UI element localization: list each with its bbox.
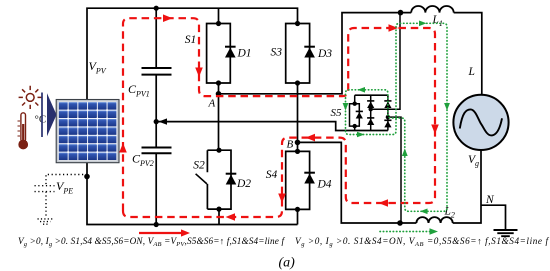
red arrow left on bottom segment (226, 213, 236, 221)
node S4 top (295, 149, 300, 154)
switch S5 rectangle (350, 95, 360, 130)
green arrow left above S5 block (358, 87, 366, 93)
green arrow down left of S5 (343, 103, 349, 111)
PV panel cells (58, 102, 116, 161)
svg-text:S4: S4 (266, 169, 278, 181)
node L1 junction (398, 10, 404, 16)
arrowhead on clamp wire at capacitor midpoint (159, 118, 168, 124)
svg-text:D4: D4 (317, 178, 332, 190)
wire m1 to top AC line (371, 13, 400, 110)
wire bottom AC line to grid (453, 150, 481, 223)
diode D5 on S5 right side (356, 112, 363, 119)
red arrow right on top inner segment (163, 14, 173, 22)
diode bridge bottom-right (384, 121, 391, 128)
wire capacitor string upper (155, 8, 157, 68)
inductor L2 (416, 217, 452, 223)
node m2 (386, 115, 390, 119)
svg-text:S3: S3 (271, 47, 283, 59)
diode bridge top-right (384, 102, 391, 109)
node S1 bottom (216, 80, 221, 85)
sine wave inside Vg (460, 109, 502, 135)
wire output A to top AC line (219, 13, 412, 94)
node S5 bottom (353, 124, 357, 128)
svg-text:B: B (287, 139, 294, 151)
svg-text:(a): (a) (279, 256, 296, 271)
svg-text:Vg: Vg (468, 154, 479, 168)
svg-text:D2: D2 (236, 178, 251, 190)
switch S3 block rectangle (286, 24, 310, 84)
wire top AC line to grid (454, 13, 482, 95)
node L2 junction (397, 220, 403, 226)
svg-text:D3: D3 (317, 48, 332, 60)
diode D2 (226, 175, 237, 185)
green arrow right below S5 block (357, 132, 365, 138)
wire m2 to bottom AC line (388, 117, 401, 223)
S5 block top rail (355, 94, 388, 96)
svg-text:°C: °C (35, 114, 47, 126)
wire clamp from capacitor midpoint to S5 block bottom rail (156, 122, 388, 131)
VPE dotted ground (38, 219, 53, 224)
sun icon (19, 86, 42, 109)
node A (216, 91, 222, 97)
svg-text:VPV: VPV (89, 59, 107, 76)
node capacitor midpoint (154, 119, 159, 124)
switch S2 blade (196, 174, 207, 184)
red arrow down on S4 leg (278, 194, 286, 204)
diode bridge bottom-left (367, 119, 374, 126)
node S3 top (295, 21, 300, 26)
svg-text:N: N (485, 194, 495, 206)
red arrow up on left leg (119, 143, 127, 153)
node S2 bottom (216, 207, 221, 212)
wire leg A column (218, 83, 220, 150)
irradiance arrow triangle (47, 93, 57, 136)
svg-text:S5: S5 (331, 107, 343, 119)
green arrow up on m2 return leg (402, 149, 408, 157)
wire DC+ rail from PV+ to S3 leg (87, 8, 298, 99)
node capacitor bottom junction (154, 222, 159, 227)
wire S4 to DC- rail (297, 209, 299, 224)
red dashed current loop (123, 18, 435, 217)
node m1 (369, 107, 373, 111)
switch S1 block rectangle (207, 24, 231, 84)
svg-text:L1: L1 (432, 14, 443, 28)
VPE dotted capacitor (35, 186, 55, 192)
svg-text:CPV1: CPV1 (128, 82, 150, 99)
diode D3 (304, 48, 315, 58)
wire S1 top tap (218, 8, 220, 23)
thermometer icon (18, 113, 29, 150)
capacitor CPV2 (142, 148, 172, 154)
green dotted freewheeling loop (346, 23, 448, 211)
green arrow right on top segment (419, 21, 427, 27)
green dotted direction arrow above right caption (380, 231, 430, 233)
red direction arrow above left caption (139, 232, 184, 234)
red arrow left on B-return segment (306, 134, 316, 142)
node B (295, 140, 301, 146)
bridge middle diode branch (370, 95, 372, 130)
green arrow down on grid right leg (444, 103, 450, 111)
inductor L1 (411, 6, 453, 13)
diode bridge top-left (367, 102, 374, 109)
svg-text:VPE: VPE (56, 179, 73, 196)
switch S4 block rectangle (286, 151, 310, 209)
node S3 bottom (295, 80, 300, 85)
switch S2 block (open switch) (207, 150, 231, 209)
red arrow left on grid bottom segment (379, 199, 389, 207)
node S4 bottom (295, 207, 300, 212)
svg-text:L: L (468, 66, 475, 78)
VPE dotted wire lower (45, 192, 47, 217)
node S5 top (353, 102, 357, 106)
ground symbol grid (494, 230, 518, 236)
svg-text:A: A (208, 98, 216, 110)
grid source Vg circle (453, 95, 508, 150)
wire output B to bottom AC line (298, 142, 417, 223)
bridge right diode branch (387, 95, 389, 130)
node capacitor-string top junction (154, 6, 159, 11)
wire capacitor string lower (155, 153, 157, 224)
red arrow down on S1 leg (195, 68, 203, 78)
svg-text:S1: S1 (185, 34, 197, 46)
red arrow down on grid leg (431, 125, 439, 135)
svg-text:Vg >0, Ig >0. S1,S4 &S5,S6=ON,: Vg >0, Ig >0. S1,S4 &S5,S6=ON, VAB =VPV,… (18, 236, 285, 248)
svg-text:Vg >0, Ig >0. S1&S4=ON, VAB =0: Vg >0, Ig >0. S1&S4=ON, VAB =0,S5&S6=↑ f… (295, 236, 549, 248)
irradiance arrow line (41, 93, 43, 138)
node S1 top (216, 21, 221, 26)
DC- rail (87, 163, 298, 225)
node S2 top (216, 148, 221, 153)
diode D4 (304, 174, 315, 184)
PV panel frame (56, 100, 119, 163)
svg-text:S2: S2 (193, 159, 205, 171)
diode D1 (225, 48, 236, 58)
wire N branch (481, 205, 506, 230)
wire leg B column (297, 83, 299, 151)
green arrow left on bottom return (420, 209, 428, 215)
node PV- junction for VPE (84, 174, 90, 180)
red arrow right on AC top segment (389, 24, 399, 32)
svg-text:D1: D1 (237, 48, 252, 60)
wire capacitor middle segment (155, 75, 157, 148)
wire S2 to DC- rail (218, 209, 220, 224)
capacitor CPV1 (142, 68, 172, 75)
VPE dotted wire (46, 175, 87, 186)
